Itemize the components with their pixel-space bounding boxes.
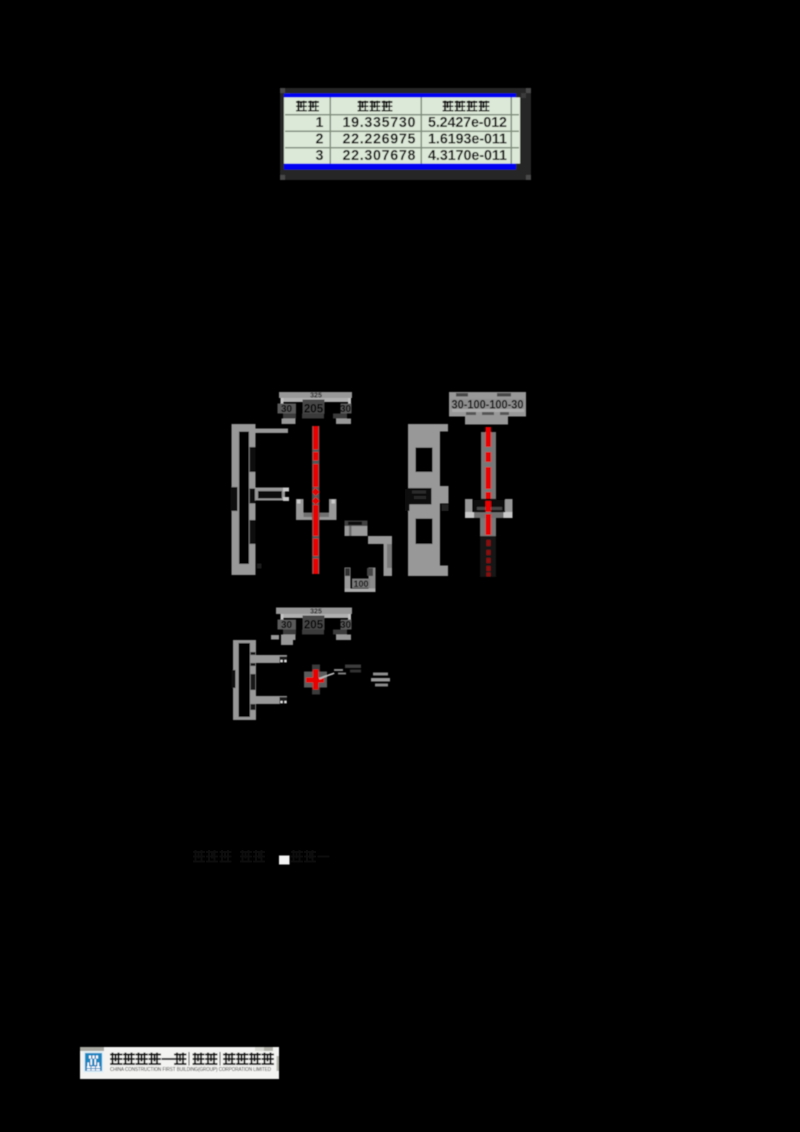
svg-text:2: 2: [316, 132, 324, 148]
caption faint text: [193, 851, 205, 853]
figure1 rotated dimension labels: [250, 447, 256, 472]
table grid lines: [285, 114, 519, 115]
figure1 red arrow diamonds: [312, 488, 320, 497]
figure1 top dimension band: [279, 392, 352, 398]
svg-text:100: 100: [353, 579, 368, 589]
table header cell: 特征值: [358, 101, 369, 103]
figure1 band tick row: [283, 414, 296, 419]
svg-text:1.6193e-011: 1.6193e-011: [428, 132, 507, 148]
figure1 lower-right detail: cup: [344, 568, 350, 592]
figure2 grouted sleeve column: [481, 432, 496, 499]
svg-text:19.335730: 19.335730: [343, 115, 416, 131]
figure3 leader line: [319, 672, 335, 679]
figure2 wall mid joint detail: [408, 488, 432, 504]
figure1 red centerline with gray halo: [312, 426, 319, 574]
svg-text:5.2427e-012: 5.2427e-012: [428, 115, 507, 131]
footer Chinese company name: [110, 1054, 122, 1056]
figure3 band aprons and legs: [281, 635, 295, 641]
figure1 lower-right detail: 100 label: [352, 579, 370, 589]
figure3 leader text: [345, 665, 361, 669]
figure3 band tick row: [283, 630, 296, 635]
footer banner checker edge hints: [80, 1047, 104, 1051]
figure2 top dimension band: [449, 392, 526, 416]
footer logo white marks: [89, 1056, 91, 1059]
figure1 band aprons: [281, 419, 295, 425]
svg-text:30: 30: [340, 404, 352, 415]
figure2 wall openings: [416, 448, 433, 472]
footer CSCEC blue logo square: [84, 1052, 104, 1073]
figure2 column below bracket: [480, 518, 496, 536]
figure1 lower-right detail: upper gray block: [345, 526, 368, 536]
figure3 arms: [250, 655, 287, 663]
figure2 left wall elevation: [408, 424, 440, 576]
figure1 chain top connector: [256, 428, 288, 433]
figure2 dark lower column: [480, 536, 496, 577]
svg-text:30: 30: [281, 404, 293, 415]
figure3 right small note: [373, 673, 388, 676]
figure3 top dimension band: [276, 608, 352, 614]
svg-text:1: 1: [316, 115, 324, 131]
table blue top bar: [284, 93, 516, 97]
svg-text:4.3170e-011: 4.3170e-011: [428, 148, 507, 164]
table green body: [284, 98, 520, 164]
figure3 red cross marker backing: [304, 672, 327, 688]
figure3 left dimension chain: [233, 640, 256, 720]
figure1 anchor cup bracket: [296, 499, 304, 520]
figure1 lower-right detail: label strip: [345, 521, 368, 527]
table header cell: 容许误差: [443, 101, 454, 103]
table header cell: 模态: [296, 101, 307, 103]
svg-text:22.226975: 22.226975: [343, 132, 416, 148]
figure1 band extension lines: [281, 398, 284, 413]
svg-text:30: 30: [340, 620, 352, 631]
figure2 dark red dashed line lower: [487, 540, 491, 546]
figure2 red centerline upper: [486, 427, 492, 447]
figure3 red cross marker: [306, 677, 324, 682]
svg-text:3: 3: [316, 148, 324, 164]
svg-text:22.307678: 22.307678: [343, 148, 416, 164]
figure1 left dimension chain: [232, 424, 256, 575]
figure2 band apron: [465, 415, 508, 425]
footer banner white background: [80, 1047, 279, 1079]
figure1 band dimension texts: [278, 404, 297, 414]
svg-text:30: 30: [281, 620, 293, 631]
figure1 mid-left wall section arm: [255, 488, 285, 501]
table blue bottom bar: [284, 164, 516, 170]
figure1 lower-right detail: L-shaped wall: [368, 536, 392, 544]
table dark surround: [280, 88, 531, 180]
svg-text:CHINA CONSTRUCTION FIRST BUILD: CHINA CONSTRUCTION FIRST BUILDING(GROUP)…: [110, 1067, 271, 1073]
svg-text:30-100-100-30: 30-100-100-30: [452, 397, 524, 411]
figure2 cup bracket: [465, 499, 473, 518]
caption white square: [279, 856, 290, 865]
figure3 band dimension texts: [278, 620, 297, 630]
figure2 band dimension text: [451, 399, 525, 409]
